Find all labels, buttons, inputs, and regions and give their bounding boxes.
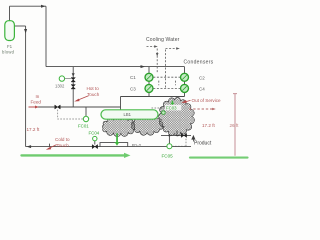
wire condenser outlet drops: [149, 92, 185, 96]
level line right: [233, 94, 237, 156]
wire pump bridge P1-2: [100, 143, 128, 147]
svg-text:Hot to: Hot to: [87, 86, 100, 91]
svg-text:C2: C2: [199, 75, 205, 80]
svg-text:1302: 1302: [55, 83, 65, 88]
valve product V4: [181, 133, 186, 137]
condenser C2: [181, 73, 189, 81]
svg-text:Cold to: Cold to: [55, 137, 70, 142]
annotation arrow In Feed: [29, 106, 36, 108]
svg-text:Feed: Feed: [31, 100, 42, 105]
cooling water dashed return: [165, 49, 167, 88]
hatch cloud B: [131, 115, 162, 135]
annotation arrow cold-to-touch: [48, 145, 57, 149]
node drum nozzle: [162, 111, 166, 115]
wire condensate header: [121, 96, 185, 98]
svg-text:LB1: LB1: [124, 112, 132, 117]
wire condenser inlet drops: [149, 67, 185, 74]
label FC03: [165, 105, 182, 111]
instrument FC01: [58, 110, 89, 122]
valve bottoms V3: [92, 145, 97, 149]
hatch cloud A: [102, 117, 134, 137]
arrow cooling return right: [176, 47, 180, 50]
svg-text:Touch: Touch: [87, 92, 100, 97]
wire vessel side nozzle: [14, 25, 25, 27]
vessel F1: [5, 21, 15, 41]
condenser dashed box legs: [159, 81, 176, 86]
wire FC04 stem: [94, 141, 96, 145]
wire overhead line top: [10, 5, 47, 7]
hatch cloud C: [159, 97, 195, 136]
svg-text:Condensers: Condensers: [184, 60, 214, 66]
valve bypass V2b: [71, 85, 75, 89]
svg-text:FC04: FC04: [89, 130, 100, 135]
instrument 1302: [59, 76, 71, 81]
wire vessel top riser: [9, 6, 11, 21]
wire FC05 signal dashed: [172, 138, 186, 146]
arrow downcomer down: [24, 29, 27, 34]
instrument FC05: [167, 144, 172, 149]
svg-text:P1-2: P1-2: [132, 143, 142, 148]
wire condensate drop to drum: [120, 97, 122, 111]
green flow bar bottom-right: [190, 157, 248, 159]
svg-text:C1: C1: [130, 75, 136, 80]
condenser C4: [181, 84, 189, 92]
instrument FC04 actuator: [93, 136, 97, 140]
svg-text:Cooling Water: Cooling Water: [146, 37, 180, 43]
annotation red dashed out-of-service: [189, 108, 213, 110]
svg-text:In: In: [36, 94, 40, 99]
cooling water dashed supply: [147, 47, 181, 89]
svg-text:FC05: FC05: [162, 153, 174, 158]
green arrow into bottoms line: [115, 101, 175, 146]
svg-text:FC03: FC03: [166, 106, 177, 111]
wire left downcomer: [25, 26, 27, 147]
svg-text:C4: C4: [199, 86, 205, 91]
svg-text:blowd: blowd: [2, 50, 15, 55]
wire bypass branch: [72, 67, 74, 107]
wire condenser column links: [149, 81, 185, 84]
valve feed V1: [55, 105, 60, 109]
wire FC05 stem: [168, 135, 170, 143]
svg-text:Out of Service: Out of Service: [192, 98, 222, 103]
arrow into condensers: [141, 65, 146, 68]
svg-text:C3: C3: [130, 86, 136, 91]
svg-text:26 ft: 26 ft: [230, 123, 240, 128]
wire overhead to condensers: [46, 66, 185, 68]
wire bottom run: [26, 146, 191, 148]
wire overhead down leg: [45, 6, 47, 66]
drum B1: [101, 110, 158, 119]
condenser dashed rail bottom: [153, 87, 180, 89]
annotation arrow hot-to-touch: [77, 96, 89, 101]
wire instrument tap FC01: [85, 107, 87, 116]
svg-text:Touch: Touch: [57, 143, 70, 148]
arrow bottom run left: [27, 145, 32, 148]
svg-text:17.2 ft: 17.2 ft: [202, 123, 215, 128]
arrow cooling supply right: [154, 45, 158, 48]
valve bypass V2a: [71, 78, 75, 82]
junction dot FC05: [168, 134, 170, 136]
svg-text:Product: Product: [194, 141, 212, 147]
arrowheads on black wires: [24, 5, 195, 148]
arrow bypass down: [72, 73, 75, 76]
arrow overhead right: [41, 5, 46, 8]
wire bottom tick: [49, 144, 51, 147]
condenser C1: [145, 73, 153, 81]
svg-text:F1: F1: [7, 44, 13, 49]
svg-text:FC01: FC01: [78, 124, 89, 129]
wire hatch drop: [176, 131, 178, 136]
svg-text:17.2 ft: 17.2 ft: [27, 127, 40, 132]
wire product header: [161, 134, 191, 136]
condenser dashed rail top: [153, 76, 180, 78]
annotation arrow out-of-service: [184, 100, 191, 102]
wire drum-to-hatch dashed: [152, 107, 165, 109]
arrow cooling supply down: [156, 53, 159, 57]
arrow product annotation: [192, 136, 195, 142]
green flow bar bottom-left: [22, 154, 125, 156]
green arrow into hatch right: [170, 101, 174, 106]
condenser C3: [145, 84, 153, 92]
wire feed line: [29, 106, 121, 108]
